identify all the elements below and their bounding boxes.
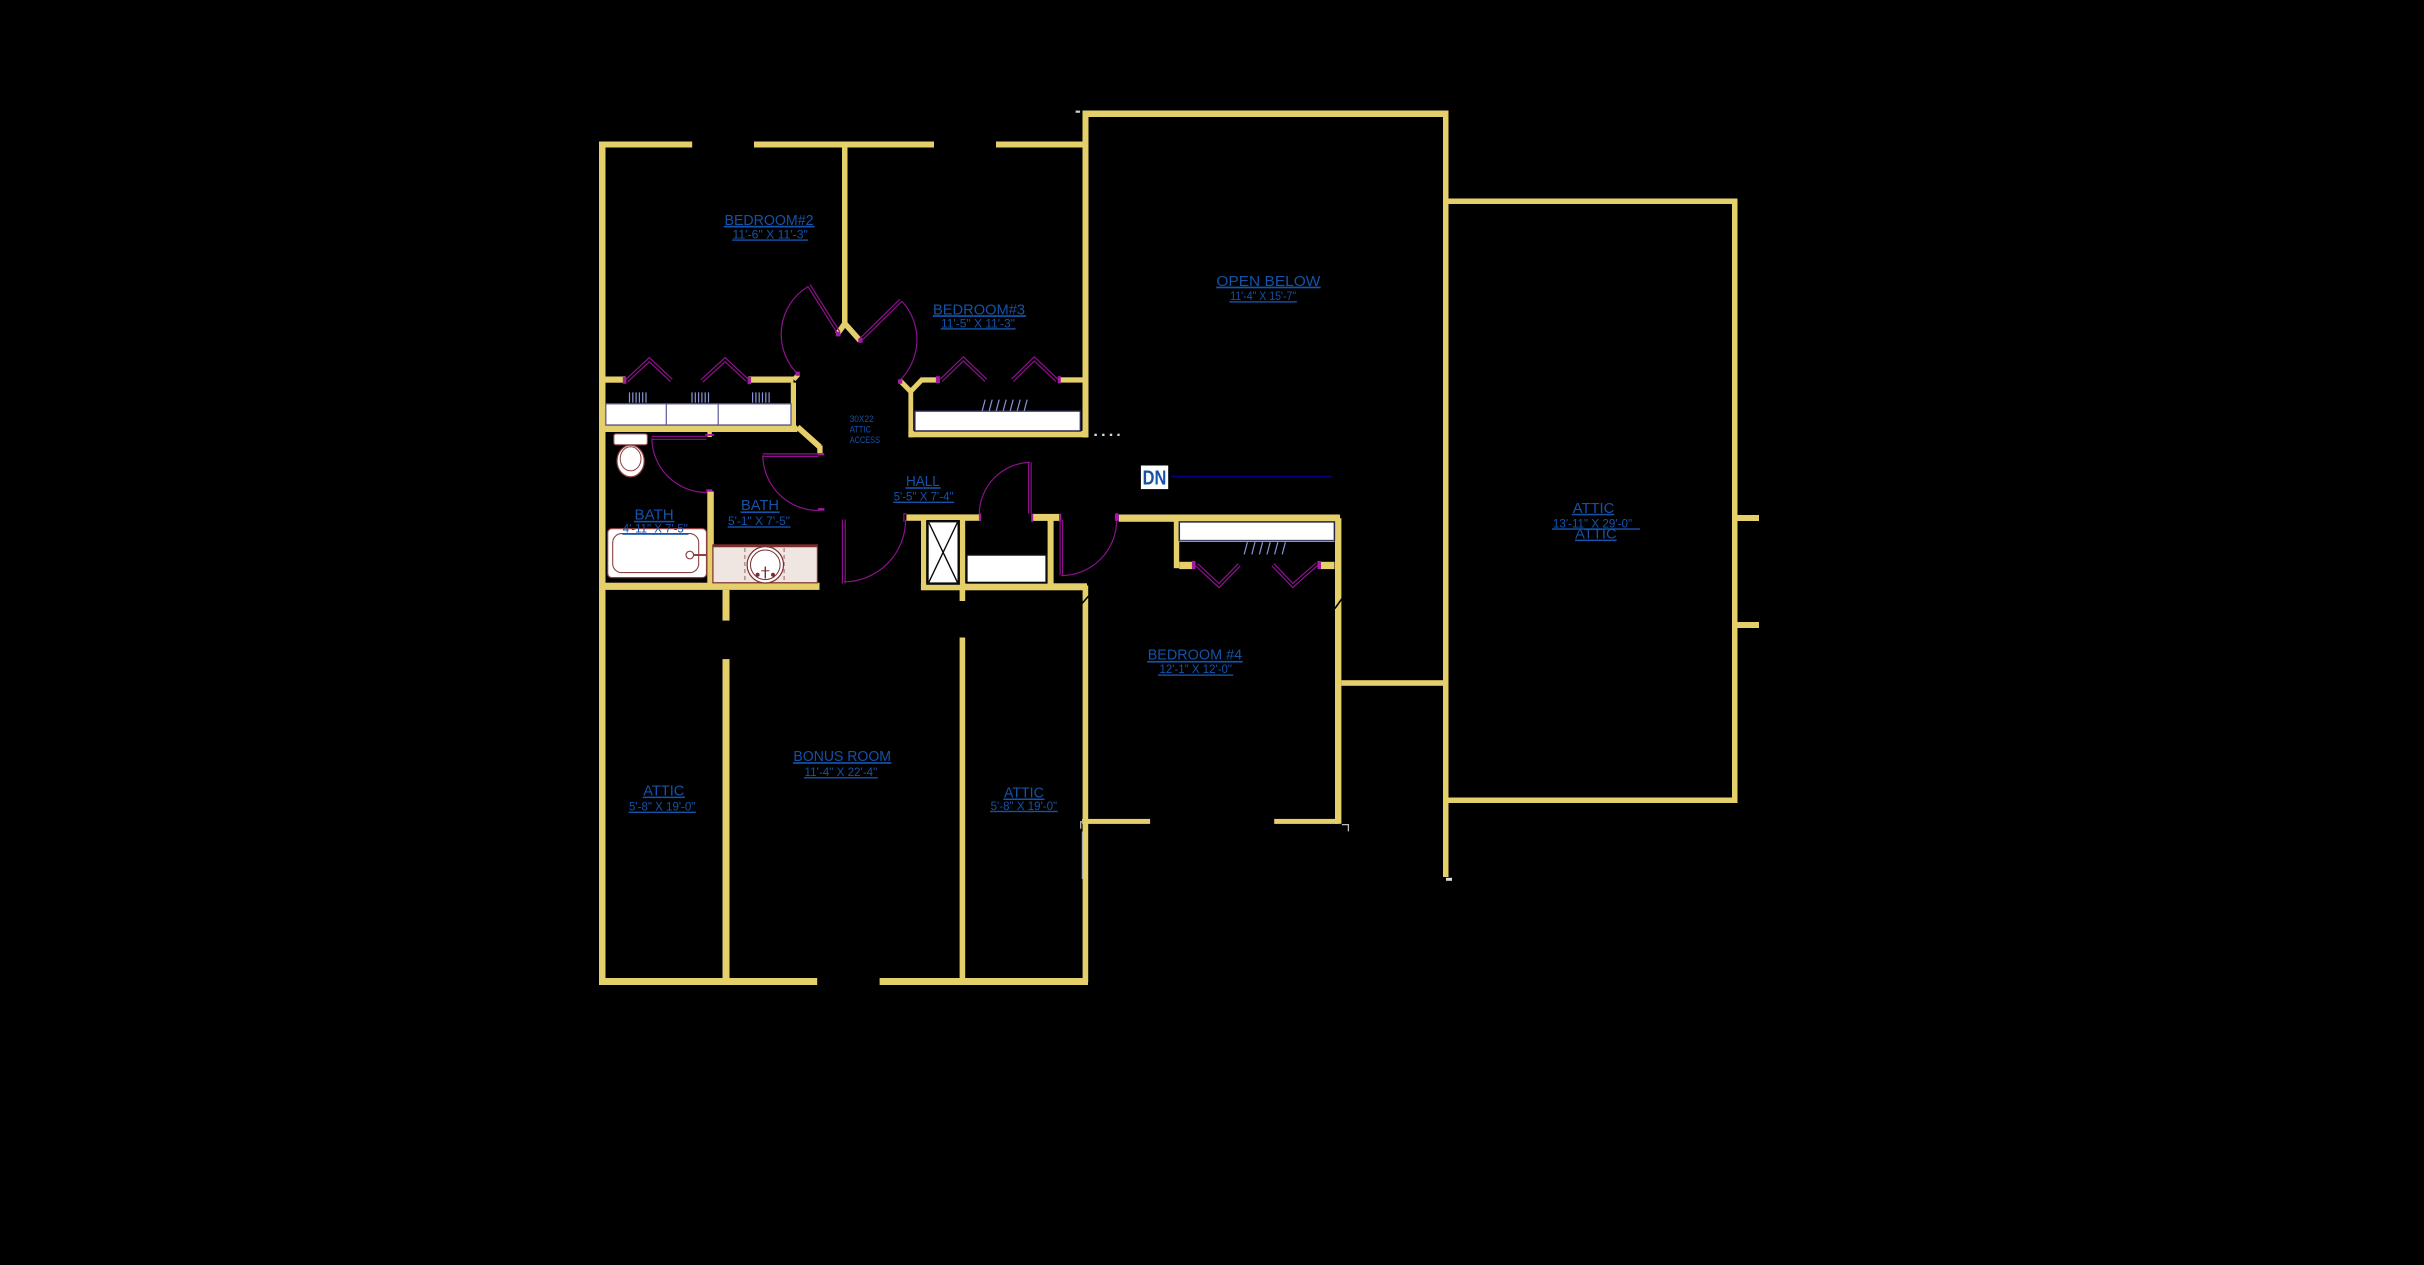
wall break tick on attic east wall [1082,596,1089,604]
door jamb: bath#2 arc end [818,508,824,510]
wall: hall south wall west of chase [921,583,1087,590]
wall: BEDROOM#2 closet north wall right piece [748,377,793,383]
wall: top exterior right segment joining OPEN BELOW [996,142,1089,148]
wall: connector from bedroom4 to attic west wall [1341,680,1443,686]
wall: BEDROOM #4 south wall right piece [1274,819,1339,824]
wall: bonus/attic divider below access opening [960,638,966,983]
wall: vertical nook piece above bath door [817,445,822,454]
door jamb: bedroom2 closet bifold left [623,377,627,384]
wall: piece from Y to closet bifold jamb [922,377,936,382]
wall: ATTIC top wall [1448,199,1738,205]
wall: diagonal wall at 30X22 attic access [798,427,820,447]
wall: bonus room west wall upper piece [723,590,730,621]
tub faucet [686,551,694,559]
door jamb: bedroom4 door hinge [1059,514,1061,522]
door swing arc: bath#2 [763,455,819,510]
grey corner tick at bedroom4 south-west [1081,822,1085,829]
bifold door: bedroom2 closet right pair [701,358,748,380]
wall: OPEN BELOW west wall [1083,111,1089,438]
bifold door: bedroom4 closet right pair [1272,565,1318,588]
wall: chase east wall continuing to attic access stub [960,520,966,601]
linen storage shelf [967,555,1047,583]
door swing arc: linen storage [979,462,1030,514]
wall: Y jamb right arm at bedroom3 closet [911,379,923,392]
grey edge line below bedroom4 SW corner [1081,832,1083,880]
door jamb: bedroom2 closet bifold right [748,377,752,384]
vanity counter [713,545,818,583]
closet shelf dividers: bedroom2 [665,404,667,425]
wall: BEDROOM #4 closet west wall [1174,518,1179,568]
hanger rod hashes: bedroom2 closet group2 [692,392,709,402]
wall: stub between closet and bath nook [791,383,796,432]
wall: BEDROOM #4 east wall [1335,518,1341,824]
wall: bottom exterior (left segment) [599,978,817,985]
DN stair edge line [1171,475,1332,477]
wall: south wall of BEDROOM#2 closet [599,426,797,432]
bathtub inner [613,534,699,573]
wall: chimney stub upper right of ATTIC [1738,515,1760,521]
wall: small diagonal jamb at closet wall end [794,374,799,379]
wall: BEDROOM #4 closet north wall [1119,515,1340,522]
wall: bottom exterior (right segment) [880,978,1088,985]
svg-text:ATTIC: ATTIC [1575,527,1617,542]
door leaf: bath#1 (double line) [652,435,707,437]
wall: closet4 bottom stub right [1321,562,1335,569]
wall: chimney stub lower right of ATTIC [1738,622,1760,628]
wall: ATTIC right wall [1732,199,1738,804]
door jamb: bedroom4 closet bifold left [1192,561,1196,569]
door jamb: bath#1 arc end [706,489,712,491]
closet shelf: bedroom2 [606,404,791,425]
door tick: bath1 above hinge [705,434,714,436]
door swing arc: bedroom4 entry [1061,520,1116,575]
DN landing box [1141,466,1168,490]
wall: chase west wall [921,520,926,588]
door jamb: bedroom3 closet bifold right [1058,376,1061,383]
wall: baths south wall [599,583,820,590]
door jamb: hall south opening east [979,513,981,521]
door leaf: bath#2 (double line) [763,453,819,455]
svg-text:ACCESS: ACCESS [850,435,880,445]
door hinge mark: bedroom2 entry [836,332,841,337]
wall: closet4 bottom stub left [1179,562,1193,569]
door jamb: bedroom4 closet bifold right [1317,561,1321,569]
door jamb: bedroom4 arc end [1115,513,1119,520]
door swing arc: bedroom3 entry [899,301,917,381]
sink faucet [764,567,766,579]
chimney chase box with X [928,521,959,583]
door jamb: bedroom3 arc end [898,379,902,383]
wall: storage room east wall [1048,520,1054,587]
bifold door: bedroom3 closet right pair [1011,357,1057,379]
closet shelf: bedroom3 [915,411,1081,431]
wall: hall south wall segment at linen door hinge [1033,514,1059,521]
wall: piece from bedroom3 bifold right jamb to open-below wall [1060,377,1083,382]
door swing arc: bath#1 [652,438,707,493]
door jamb: bedroom2 arc end [796,372,800,376]
wall: left exterior wall [599,142,606,986]
wall: divider between the two baths [707,492,714,584]
closet shelf: bedroom4 [1179,522,1334,541]
toilet bowl inner rim [620,447,641,471]
white dash at open-below wall start [1076,111,1081,113]
door leaf: bedroom2 entry (double line) [808,286,838,333]
bifold door: bedroom3 closet left pair [940,357,987,379]
door leaf: linen storage (double line) [1028,462,1030,513]
sink bowl [747,547,783,583]
door jamb: linen door hinge [1031,514,1033,522]
door hinge tick: bath#2 [818,453,824,455]
door leaf: hall bath corridor (double line) [841,520,843,584]
svg-text:ATTIC: ATTIC [850,425,872,435]
svg-text:DN: DN [1143,467,1167,489]
wall: stub at bath#1 door hinge [707,427,711,437]
wall: BEDROOM #4 west wall / right attic east wall [1083,586,1089,983]
door swing arc: bedroom2 entry [781,287,808,375]
vanity dashed dividers [744,548,746,582]
wall: door jamb diagonal left at divider foot [837,324,844,335]
bifold door: bedroom4 closet left pair [1196,566,1241,588]
dashed attic access marks near hall [1094,434,1096,436]
hanger hooks: bedroom4 closet [1244,542,1285,554]
white tick at bottom of attic west wall [1446,878,1452,881]
shelf bottom edge line: bedroom4 [1179,540,1334,542]
door jamb: hall opening west bracket [904,514,907,522]
toilet tank [614,434,648,445]
wall: BEDROOM#3 closet west wall [908,390,913,438]
svg-text:30X22: 30X22 [850,414,874,424]
bifold door: bedroom2 closet left pair [626,358,673,380]
door leaf: bedroom4 entry (double line) [1059,520,1061,575]
wall: bonus room west wall lower piece below attic opening [723,659,730,978]
wall: OPEN BELOW top exterior [1083,111,1449,118]
door hinge mark: bedroom3 entry [858,338,862,342]
wall: hall south wall west segment [906,514,979,520]
hanger hooks: bedroom3 closet [982,400,1027,411]
bathtub outer [608,529,707,578]
wall: OPEN BELOW east wall shared with ATTIC [1443,111,1449,878]
wall: BEDROOM#2 closet north wall left piece [599,377,626,383]
door swing arc: hall bath corridor [844,520,906,582]
wall: Y jamb left arm at bedroom3 door [900,380,911,391]
wall: BEDROOM#3 closet south wall [908,431,1086,437]
wall: door jamb diagonal right at divider foot [845,324,860,341]
wall break tick on bedroom4 east wall [1335,599,1342,609]
wall: top exterior between window gaps [754,142,934,148]
door jamb: bedroom3 closet bifold left [936,376,940,383]
hanger rod hashes: bedroom2 closet group1 [630,392,647,402]
wall: ATTIC bottom wall [1446,798,1738,804]
wall: BEDROOM #4 south wall left piece [1082,819,1150,824]
grey corner tick at bedroom4 south-east [1342,825,1349,832]
door leaf: bedroom3 entry (double line) [861,301,902,341]
wall: top exterior of BEDROOM#2 (left segment) [599,142,692,148]
hanger rod hashes: bedroom2 closet group3 [753,392,770,402]
wall: divider between BEDROOM#2 and BEDROOM#3 [842,146,848,325]
toilet bowl [617,445,644,477]
